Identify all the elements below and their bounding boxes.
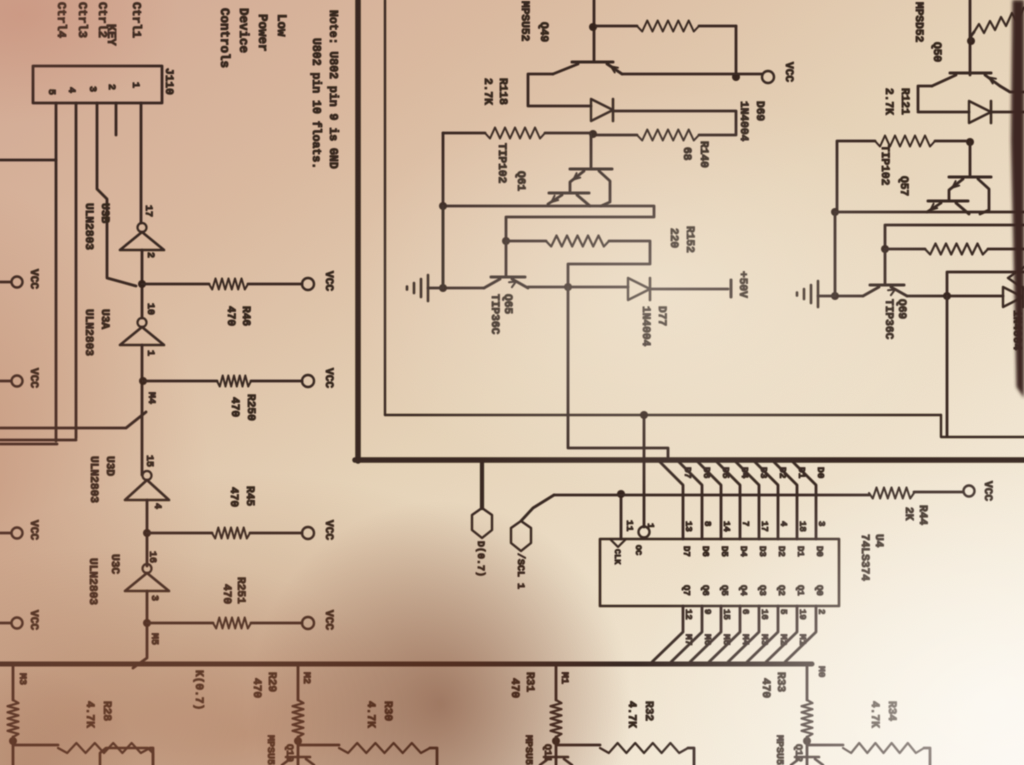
- resistor R121: [875, 136, 935, 147]
- wire J110 pin1 to U3B: [140, 103, 143, 223]
- wire R153: [885, 248, 1024, 251]
- inner box right step: [941, 415, 1024, 437]
- wire VCC stub: [0, 532, 11, 535]
- wire R120: [971, 8, 1024, 41]
- resistor R34: [843, 743, 924, 753]
- wire U3A out: [141, 345, 144, 475]
- wire M2 junction: [298, 737, 339, 765]
- node Q50 base: [967, 37, 975, 45]
- resistor R27: [8, 700, 19, 737]
- wire Q65 collector: [528, 286, 628, 289]
- node Q65 gnd: [439, 284, 447, 292]
- wire to ground right: [818, 295, 835, 298]
- transistor Q69: [884, 249, 887, 284]
- bubble OC: [639, 527, 650, 538]
- resistor R117: [637, 21, 699, 32]
- clock wedge: [610, 539, 626, 547]
- buffer right edge: [1008, 267, 1024, 289]
- wire D5 bus tap: [697, 461, 721, 539]
- wire R152: [506, 241, 650, 287]
- node gnd rail: [439, 202, 447, 210]
- wire bus tap M2: [297, 666, 300, 700]
- wire M5 bus tap: [690, 606, 721, 662]
- ground: [427, 275, 430, 301]
- wire gnd rail vert: [442, 206, 445, 288]
- wire R118: [443, 132, 590, 135]
- wire R117 to VCC rail: [735, 26, 738, 77]
- terminal VCC left: [12, 277, 23, 288]
- inner box left vertical: [384, 0, 386, 415]
- wire M0 junction: [807, 737, 843, 765]
- resistor R251: [213, 618, 251, 629]
- wire D7 bus tap: [659, 461, 683, 539]
- wire M3 junction: [13, 737, 58, 765]
- wire Q65 col down: [568, 287, 668, 457]
- wire M3 bus tap: [728, 606, 759, 662]
- node Q69 gnd: [831, 292, 839, 300]
- wire M1 bus tap: [766, 606, 797, 662]
- wire M0 bus tap: [785, 606, 816, 662]
- node U3B-R46: [138, 280, 146, 288]
- wire R28 down: [150, 748, 153, 765]
- wire R121: [837, 141, 966, 212]
- wire R32 down: [688, 748, 694, 765]
- wire R30 down: [430, 748, 437, 765]
- transistor Q61: [590, 134, 593, 168]
- node Q69 base: [881, 245, 889, 253]
- inverter U3B: [120, 232, 164, 250]
- wire OC: [643, 415, 646, 527]
- flag /SCL: [521, 495, 554, 521]
- node M0 junction: [803, 737, 811, 745]
- wire D69 cathode: [613, 111, 736, 135]
- wire J110 pin4: [0, 103, 76, 440]
- node M4: [139, 377, 147, 385]
- wire Q69 collector: [907, 295, 1003, 298]
- resistor R30: [339, 743, 430, 753]
- wire D6 bus tap: [678, 461, 702, 539]
- wire D70 cathode: [991, 111, 1024, 114]
- wire Q49 collector: [528, 74, 591, 106]
- diode D69: [591, 99, 613, 121]
- node R121: [966, 138, 974, 146]
- wire D1 bus tap: [773, 461, 797, 539]
- terminal VCC left: [12, 376, 23, 387]
- wire R34 down: [924, 748, 930, 765]
- wire gnd rail right vert: [834, 212, 837, 296]
- wire left exit: [0, 159, 56, 162]
- node D78 anode: [943, 292, 951, 300]
- wire D2 bus tap: [754, 461, 778, 539]
- wire J110 pin2 stub: [115, 103, 118, 135]
- node Q49 base: [589, 23, 597, 31]
- terminal VCC R46: [302, 278, 314, 290]
- resistor R250: [217, 376, 251, 387]
- wire Q50 emitter: [1000, 86, 1024, 92]
- wire U3D out: [146, 500, 149, 566]
- wire M6 bus tap: [671, 606, 702, 662]
- wire M7 bus tap: [652, 606, 683, 662]
- bus K thick: [0, 662, 812, 667]
- resistor R44: [869, 488, 914, 499]
- node M1 junction: [552, 737, 560, 745]
- wire Q49 base top: [593, 0, 596, 61]
- border thick vertical: [355, 0, 361, 461]
- IC U4 74LS374 box: [600, 539, 839, 606]
- transistor Q12: [791, 757, 823, 765]
- transistor Q57: [969, 142, 972, 176]
- terminal VCC left: [12, 618, 23, 629]
- resistor R32: [600, 743, 688, 753]
- node M2 junction: [294, 737, 302, 745]
- wire Q65 emitter: [443, 287, 484, 290]
- node U3D-R45: [143, 529, 151, 537]
- node VCC rail: [732, 73, 740, 81]
- wire U3B out: [141, 250, 144, 318]
- wire Q69 col down: [946, 296, 949, 436]
- connector J110: [33, 66, 162, 103]
- transistor Q50: [950, 72, 991, 75]
- node Q65 base: [502, 237, 510, 245]
- wire M4 bus tap: [709, 606, 740, 662]
- wire window top right: [885, 225, 1024, 249]
- wire D0 bus tap: [792, 461, 816, 539]
- wire D77 cathode: [650, 288, 728, 291]
- inverter U3A: [120, 327, 164, 345]
- resistor R153: [925, 244, 988, 255]
- transistor Q9 partial: [100, 748, 153, 765]
- resistor R140: [637, 130, 699, 141]
- diode D78: [1003, 287, 1023, 307]
- wire window right: [947, 272, 1024, 295]
- border thick horizontal: [355, 457, 1024, 463]
- node R140-R118: [589, 130, 597, 138]
- paper edge dark band top right: [1011, 0, 1024, 398]
- wire bus tap M3: [12, 666, 15, 700]
- wire to ground: [428, 287, 443, 290]
- resistor R28: [58, 743, 150, 753]
- wire U3C out: [133, 591, 147, 668]
- transistor Q49: [572, 61, 613, 64]
- wire J110 pin5: [0, 103, 57, 444]
- wire M2 bus tap: [747, 606, 778, 662]
- node OC: [640, 411, 648, 419]
- terminal VCC R250: [302, 375, 314, 387]
- terminal VCC Q49: [762, 71, 774, 83]
- wire J110 pin3: [97, 103, 136, 286]
- terminal VCC R251: [302, 617, 314, 629]
- terminal VCC R45: [302, 527, 314, 539]
- wire bus tap M0: [806, 666, 809, 700]
- wire D3 bus tap: [735, 461, 759, 539]
- node gnd rail right: [831, 208, 839, 216]
- transistor Q65: [505, 241, 508, 276]
- wire to R251: [147, 622, 302, 625]
- flag D(0.7): [480, 462, 484, 508]
- node M5: [143, 619, 151, 627]
- transistor Q10: [282, 757, 314, 765]
- resistor R118: [485, 128, 545, 139]
- node D77 anode: [564, 283, 572, 291]
- wire R118 down to gnd rail: [442, 133, 445, 288]
- wire gnd rail right: [835, 211, 1024, 214]
- wire VCC stub: [0, 622, 11, 625]
- resistor R45: [212, 528, 250, 539]
- resistor R120: [974, 9, 1023, 33]
- ground right: [817, 281, 820, 307]
- inverter U3C: [125, 573, 169, 591]
- resistor R31: [551, 700, 562, 737]
- terminal VCC R44: [964, 486, 975, 497]
- node CLK: [617, 490, 625, 498]
- terminal VCC left: [12, 528, 23, 539]
- wire to R45: [147, 532, 302, 535]
- wire to R250: [143, 380, 302, 383]
- wire R140 to node: [596, 134, 637, 137]
- wire to R117: [596, 25, 736, 28]
- node M3 junction: [9, 737, 17, 745]
- wire CLK rail: [554, 492, 963, 495]
- transistor Q11: [540, 757, 572, 765]
- wire CLK: [620, 495, 623, 539]
- wire D4 bus tap: [716, 461, 740, 539]
- diode D70: [969, 101, 991, 123]
- wire Q50 collector: [918, 86, 969, 112]
- wire to R46: [142, 283, 302, 286]
- resistor R29: [293, 700, 304, 737]
- resistor R46: [209, 279, 248, 290]
- resistor R33: [802, 700, 813, 737]
- wire VCC stub: [0, 281, 11, 284]
- power +50V: [730, 280, 733, 297]
- inverter U3D: [125, 480, 169, 500]
- diode D77: [628, 278, 650, 300]
- wire Q49 emitter: [609, 65, 762, 74]
- inner box horizontal: [385, 414, 941, 416]
- wire M4 exit: [0, 412, 146, 428]
- resistor R152: [546, 236, 609, 247]
- wire bus tap M1: [555, 666, 558, 700]
- wire VCC stub: [0, 380, 11, 383]
- wire Q50 base top: [969, 0, 972, 75]
- wire gnd rail to window: [443, 206, 654, 241]
- wire Q69 emitter: [835, 295, 863, 298]
- wire M1 junction: [556, 737, 600, 765]
